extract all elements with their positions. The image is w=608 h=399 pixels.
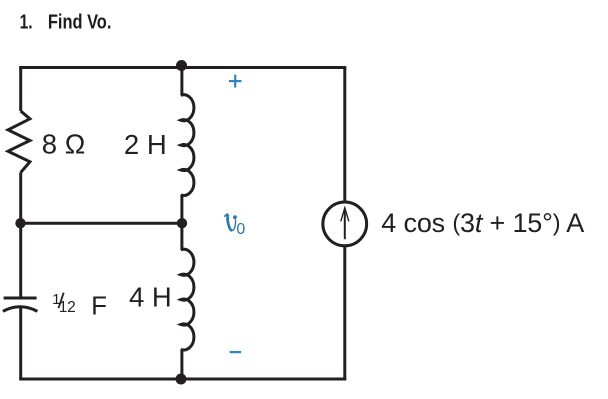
wire: right vertical upper (top wire to current source) — [343, 68, 346, 203]
junction dot: middle left node — [15, 218, 25, 228]
junction dot: bottom middle node — [176, 374, 187, 385]
wire: top horizontal — [19, 66, 346, 69]
inductor L1 2 H — [181, 95, 194, 196]
junction dot: top middle node — [176, 60, 187, 71]
resistor R 8 ohm zigzag — [8, 111, 30, 173]
wire: left vertical upper (top wire to resistor) — [19, 68, 22, 112]
v thick down stroke — [228, 214, 232, 230]
svg-text:12: 12 — [59, 299, 76, 316]
current source I1 circle — [323, 202, 367, 246]
svg-text:0: 0 — [236, 221, 245, 238]
svg-text:1.: 1. — [20, 12, 33, 34]
wire: middle branch bottom (4H coil to bottom junction) — [180, 349, 183, 379]
v terminal ball — [233, 215, 237, 219]
inductor L2 4 H — [181, 249, 194, 350]
wire: left vertical middle (resistor to capacitor) — [19, 173, 22, 297]
wire: right vertical lower (current source to bottom wire) — [343, 246, 346, 379]
capacitor C 1/12 F top plate — [4, 297, 37, 300]
wire: middle branch below center node to 4H coil — [180, 223, 183, 250]
junction dot: middle center node — [177, 218, 187, 228]
wire: middle branch between 2H coil and center node — [180, 195, 183, 223]
wire: middle branch top (top junction to 2H coil) — [180, 68, 183, 96]
v entry flag — [224, 214, 228, 217]
wire: left vertical lower (capacitor to bottom wire) — [19, 308, 22, 379]
svg-text:Find Vo.: Find Vo. — [48, 12, 112, 34]
svg-text:8 Ω: 8 Ω — [42, 129, 86, 160]
wire: bottom horizontal — [19, 378, 346, 381]
capacitor C 1/12 F curved bottom plate — [3, 307, 38, 312]
svg-text:F: F — [91, 291, 107, 321]
svg-text:2 H: 2 H — [124, 129, 167, 160]
svg-text:4 cos (3t + 15°) A: 4 cos (3t + 15°) A — [381, 208, 584, 238]
svg-text:4 H: 4 H — [129, 281, 172, 312]
wire: middle horizontal (left node to center node) — [21, 222, 182, 225]
label 1/12 F — [52, 291, 107, 321]
node label vo (blue, math italic v with subscript 0) — [224, 214, 235, 231]
polarity minus (blue) — [230, 351, 241, 353]
polarity plus (blue) — [229, 75, 242, 88]
current source I1 arrow — [341, 208, 349, 239]
v thin rising stroke — [232, 219, 236, 230]
title "1. Find Vo." — [20, 12, 112, 34]
